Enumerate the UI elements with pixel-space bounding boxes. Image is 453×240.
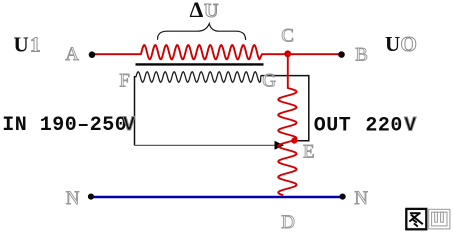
svg-text:Δ: Δ: [190, 0, 204, 22]
svg-text:G: G: [262, 71, 276, 92]
svg-text:D: D: [281, 212, 295, 233]
svg-text:N: N: [354, 188, 368, 209]
svg-text:1: 1: [30, 32, 41, 56]
svg-text:B: B: [355, 45, 368, 66]
svg-text:C: C: [281, 26, 294, 47]
svg-text:F: F: [119, 70, 130, 91]
svg-text:U: U: [14, 32, 29, 56]
svg-text:A: A: [65, 44, 79, 65]
svg-text:N: N: [66, 188, 80, 209]
svg-text:OUT: OUT: [314, 115, 352, 138]
svg-text:220: 220: [365, 115, 403, 138]
svg-text:V: V: [404, 115, 417, 138]
svg-text:E: E: [303, 142, 315, 163]
svg-text:U: U: [204, 0, 218, 22]
svg-text:IN 190–250: IN 190–250: [2, 114, 127, 137]
svg-text:O: O: [401, 32, 417, 56]
svg-text:V: V: [123, 114, 136, 137]
svg-text:U: U: [385, 32, 400, 56]
